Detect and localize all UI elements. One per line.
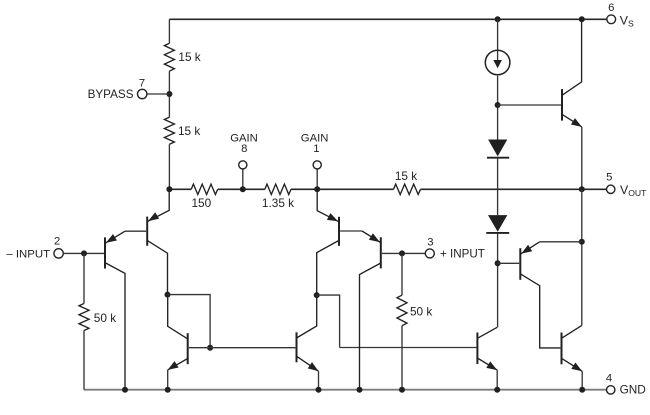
resistor R7 50k <box>397 295 407 326</box>
node top rail output <box>579 16 585 22</box>
transistor Q5 emitter arrow <box>168 361 179 370</box>
transistor Q7 emitter <box>477 358 497 370</box>
svg-text:15 k: 15 k <box>178 124 200 138</box>
node Q2 collector junction <box>165 292 171 298</box>
wire top supply rail <box>169 18 606 20</box>
transistor Q1 emitter arrow <box>106 234 117 243</box>
wire Q4 base to Q3 emitter <box>340 230 362 232</box>
node input bias junction <box>81 250 87 256</box>
transistor Q8 emitter arrow <box>521 245 532 254</box>
wire Q7 emitter to rail <box>496 370 498 390</box>
node top rail current source <box>495 16 501 22</box>
resistor R5 15 k <box>394 184 421 194</box>
transistor Q5 collector <box>168 295 188 339</box>
transistor Q8 base bar <box>519 248 521 280</box>
wire current source to node <box>497 76 499 140</box>
wire Q5 emitter to rail <box>167 370 169 390</box>
wire 50k left to rail <box>83 331 85 390</box>
node Q6 emitter ground <box>316 387 322 393</box>
resistor R6 50k <box>79 304 89 331</box>
wire 50k right to rail <box>401 326 403 390</box>
svg-text:15 k: 15 k <box>395 169 417 183</box>
transistor Q10 emitter arrow <box>571 118 582 127</box>
diode D2 triangle <box>488 215 507 232</box>
wire Q8 base <box>498 262 520 264</box>
wire Q6 emitter to rail <box>318 371 320 390</box>
transistor Q7 emitter arrow <box>486 361 497 370</box>
transistor Q4 collector <box>317 240 339 295</box>
wire mid node to R3 <box>169 188 191 190</box>
pin 3 circle <box>425 249 434 258</box>
wire Q7 base <box>340 347 477 349</box>
wire Q8 emitter link <box>540 241 582 243</box>
svg-text:VOUT: VOUT <box>620 183 647 198</box>
transistor Q2 emitter arrow <box>148 212 159 221</box>
node left mid junction <box>166 186 172 192</box>
transistor Q3 emitter <box>362 231 381 243</box>
diode D1 cathode bar <box>487 157 509 159</box>
wire 50k left top lead <box>83 253 85 303</box>
svg-text:4: 4 <box>606 372 612 384</box>
wire mirror link left <box>168 295 211 348</box>
wire R5 to VOUT pin <box>421 188 607 190</box>
node VOUT junction <box>579 186 585 192</box>
wire top rail left drop <box>168 19 170 43</box>
pin 4 GND circle <box>607 386 615 394</box>
svg-text:3: 3 <box>427 236 433 248</box>
wire 50k right top lead <box>401 253 403 295</box>
current source I1 circle <box>485 50 510 75</box>
svg-text:7: 7 <box>139 77 145 89</box>
svg-text:15 k: 15 k <box>178 50 200 64</box>
wire D2 to Q7 collector <box>497 234 499 327</box>
transistor Q8 collector <box>520 274 560 348</box>
transistor Q10 base bar <box>561 89 563 121</box>
node current source output <box>495 102 501 108</box>
wire second stage link <box>317 295 340 347</box>
resistor R1 15k <box>164 43 174 71</box>
node mirror base junction <box>207 345 213 351</box>
transistor Q10 collector <box>562 19 582 95</box>
svg-text:50 k: 50 k <box>94 311 116 325</box>
svg-text:1.35 k: 1.35 k <box>262 196 294 210</box>
transistor Q3 emitter arrow <box>369 233 380 242</box>
wire R2 to mid node <box>168 144 170 189</box>
transistor Q7 collector <box>477 327 497 338</box>
transistor Q6 collector <box>297 295 317 338</box>
pin 1 GAIN circle <box>313 161 321 169</box>
wire D1 to D2 <box>497 159 499 216</box>
svg-text:VS: VS <box>620 13 634 28</box>
svg-text:– INPUT: – INPUT <box>6 248 50 260</box>
transistor Q9 emitter <box>562 358 583 371</box>
svg-text:GND: GND <box>620 383 646 397</box>
node gain1 junction <box>314 186 320 192</box>
transistor Q4 emitter arrow <box>327 213 338 221</box>
transistor Q5 base bar <box>187 333 189 364</box>
resistor R2 15k <box>164 117 174 144</box>
svg-text:2: 2 <box>54 236 60 248</box>
resistor R3 150 <box>191 184 218 194</box>
wire mirror base <box>189 347 296 349</box>
transistor Q4 emitter <box>317 189 339 222</box>
node Q9 emitter ground <box>579 387 585 393</box>
diode D1 triangle <box>488 140 507 157</box>
node bypass junction <box>166 91 172 97</box>
transistor Q8 emitter <box>520 242 539 254</box>
transistor Q3 collector <box>360 263 381 390</box>
transistor Q1 collector <box>105 263 125 390</box>
node Q8 emitter junction <box>579 239 585 245</box>
pin 7 BYPASS <box>138 89 147 98</box>
node diode output junction <box>495 260 501 266</box>
wire pin2 to Q1 base <box>63 252 104 254</box>
wire pin7 stub <box>147 93 170 95</box>
node gain8 junction <box>240 186 246 192</box>
transistor Q1 emitter <box>105 231 125 243</box>
node Q1 collector ground <box>122 387 128 393</box>
node Q7 emitter ground <box>494 387 500 393</box>
svg-text:6: 6 <box>608 2 614 14</box>
node Q6 collector junction <box>314 292 320 298</box>
transistor Q2 base bar <box>146 217 148 246</box>
wire R3 to R4 <box>218 188 265 190</box>
transistor Q9 collector <box>562 325 582 338</box>
node Q5 emitter ground <box>165 387 171 393</box>
pin 6 VS circle <box>607 15 616 24</box>
diode D2 cathode bar <box>486 232 509 234</box>
node plus input junction <box>399 250 405 256</box>
svg-text:50 k: 50 k <box>410 304 432 318</box>
svg-text:+ INPUT: + INPUT <box>440 248 485 261</box>
transistor Q7 base bar <box>476 333 478 365</box>
svg-text:BYPASS: BYPASS <box>88 88 134 101</box>
transistor Q6 emitter <box>297 356 319 371</box>
current source I1 arrow <box>493 60 502 68</box>
pin 8 GAIN circle <box>239 161 247 169</box>
transistor Q2 collector <box>147 240 167 294</box>
wire pin1 stub <box>316 169 318 189</box>
wire pin8 stub <box>242 169 244 189</box>
svg-text:150: 150 <box>191 196 211 210</box>
transistor Q9 base bar <box>561 333 563 365</box>
wire Q1 emitter to Q2 base <box>125 230 146 232</box>
wire rail to current source <box>497 19 499 60</box>
wire R4 to R5 <box>291 188 394 190</box>
wire Q10 emitter to VOUT <box>581 127 583 189</box>
svg-text:8: 8 <box>241 143 247 155</box>
pin 2 circle <box>54 249 63 258</box>
transistor Q6 base bar <box>296 332 298 362</box>
transistor Q6 emitter arrow <box>308 362 319 371</box>
pin 5 VOUT circle <box>607 185 615 193</box>
wire ground rail <box>84 389 607 391</box>
resistor R4 1.35 k <box>265 184 291 194</box>
wire Q10 base <box>498 104 561 106</box>
node Q3 collector ground <box>357 387 363 393</box>
transistor Q5 emitter <box>168 359 188 370</box>
node 50k right ground <box>399 387 405 393</box>
svg-text:5: 5 <box>606 171 612 183</box>
transistor Q10 emitter <box>562 114 582 127</box>
wire Q9 emitter to ground <box>581 371 583 389</box>
transistor Q2 emitter <box>147 189 169 221</box>
transistor Q4 base bar <box>338 217 340 246</box>
svg-text:1: 1 <box>313 143 319 155</box>
wire R1 to bypass node <box>168 71 170 117</box>
transistor Q9 emitter arrow <box>571 363 582 372</box>
wire Q3 base to pin3 <box>382 252 425 254</box>
transistor Q1 base bar <box>104 237 106 268</box>
transistor Q3 base bar <box>380 237 382 268</box>
wire VOUT to Q9 collector <box>581 189 583 325</box>
